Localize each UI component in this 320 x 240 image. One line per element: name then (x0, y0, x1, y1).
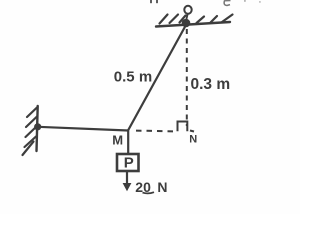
wire box to arrow (126, 171, 128, 184)
wall pivot dot (34, 123, 41, 130)
wall hatch 4 (25, 137, 37, 148)
right angle mark at N (178, 122, 188, 132)
hanger wire M to box (127, 131, 129, 154)
ceiling hatch 3 (180, 16, 186, 23)
O label tail to pivot (186, 14, 188, 20)
svg-text:0.3 m: 0.3 m (191, 76, 231, 93)
svg-text:P: P (124, 155, 134, 172)
wall hatch 3 (26, 127, 37, 138)
pivot O dot (182, 19, 191, 28)
wall line (37, 106, 38, 151)
svg-text:M: M (112, 133, 123, 148)
rod wall-M (38, 127, 128, 131)
load box P (117, 154, 139, 171)
svg-text:N: N (189, 133, 197, 145)
force arrowhead 20 N (123, 183, 132, 191)
svg-text:0.5 m: 0.5 m (114, 69, 152, 86)
ceiling hatch 2 (170, 15, 179, 24)
ceiling hatch 1 (160, 15, 168, 24)
label O (184, 6, 191, 14)
ceiling hatch 5 (211, 16, 218, 23)
dash after right angle (190, 131, 194, 132)
ceiling hatch 6 (222, 15, 233, 23)
dashed horizontal M-N (136, 130, 177, 133)
strut O-M (128, 24, 187, 131)
ceiling line (156, 22, 230, 27)
wall hatch 5 (23, 142, 34, 156)
smudge under 0 of 20 (143, 192, 155, 193)
dashed vertical O-N (186, 29, 188, 126)
wall hatch 2 (26, 117, 37, 128)
ceiling hatch 4 (197, 17, 205, 24)
wall hatch 1 (27, 107, 38, 117)
cut-off text fragments at top edge (150, 0, 261, 6)
